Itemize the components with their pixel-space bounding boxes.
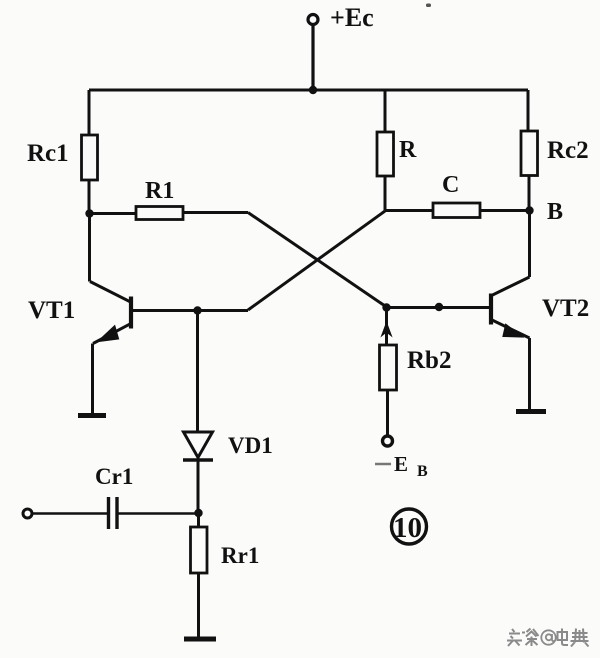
- wire: diagonal VT1 base to R bottom: [248, 211, 385, 310]
- transistor VT2: [491, 277, 530, 338]
- wire: VT2 emitter to ground: [528, 338, 531, 409]
- wire: left rail down to VT1 collector: [88, 214, 91, 282]
- label Rr1: [221, 543, 259, 568]
- label R: [399, 137, 417, 163]
- label VT1: [28, 297, 75, 324]
- svg-text:C: C: [442, 172, 459, 198]
- junction: VT1 base / VD1 branch: [193, 306, 201, 314]
- resistor Rc1: [82, 90, 98, 214]
- svg-text:Cr1: Cr1: [95, 464, 133, 489]
- transistor VT1: [90, 282, 131, 344]
- wire: VT1 base node down to VD1: [196, 311, 199, 433]
- ground (Rr1 bottom): [184, 637, 216, 642]
- terminal: trigger input: [23, 509, 32, 518]
- wire: VT1 emitter to ground: [91, 344, 94, 414]
- resistor Rc2: [521, 90, 538, 211]
- label C: [442, 172, 459, 198]
- wire: top supply rail: [89, 89, 528, 92]
- junction: trigger input node: [194, 509, 202, 517]
- wire: VT2 base wire: [388, 306, 491, 309]
- ground (VT1 emitter): [78, 413, 106, 418]
- svg-text:R: R: [399, 137, 417, 163]
- svg-text:10: 10: [393, 512, 422, 544]
- label Rc1: [27, 140, 69, 167]
- junction: Rc1 bottom node: [85, 209, 93, 217]
- node B: [525, 206, 533, 214]
- label VT2: [542, 295, 589, 322]
- power terminal +Ec: [308, 15, 318, 91]
- label Cr1: [95, 464, 133, 489]
- wire: VT1 base wire: [131, 309, 248, 312]
- junction: dot on VT2 base wire: [435, 303, 443, 311]
- svg-text:VT2: VT2: [542, 295, 589, 322]
- label B: [547, 199, 563, 225]
- capacitor Cr1: [32, 497, 198, 529]
- svg-text:Rc1: Rc1: [27, 140, 69, 167]
- svg-text:E: E: [394, 452, 408, 476]
- watermark 头条@电巢: [507, 629, 589, 647]
- capacitor C (boxed): [385, 203, 530, 218]
- resistor R: [377, 90, 394, 211]
- ground (VT2 emitter): [516, 409, 546, 414]
- speck artifact: [426, 4, 431, 8]
- svg-text:VD1: VD1: [228, 433, 273, 458]
- terminal -EB: [383, 436, 393, 446]
- label +Ec: [330, 3, 374, 32]
- svg-text:Rb2: Rb2: [407, 347, 451, 374]
- diode VD1: [183, 432, 213, 513]
- svg-text:VT1: VT1: [28, 297, 75, 324]
- svg-text:B: B: [417, 463, 428, 480]
- junction: +Ec on rail: [309, 86, 317, 94]
- junction: VT2 base / Rb2 branch: [382, 303, 390, 311]
- svg-text:B: B: [547, 199, 563, 225]
- wire: node B to VT2 collector: [528, 211, 531, 278]
- figure number 10 (circled): [392, 509, 427, 544]
- label R1: [145, 178, 174, 204]
- resistor Rb2: [380, 308, 397, 436]
- wire: diagonal R1 to VT2 base: [248, 213, 388, 309]
- label VD1: [228, 433, 273, 458]
- label Rc2: [547, 137, 589, 164]
- label -EB: [375, 452, 428, 480]
- svg-text:R1: R1: [145, 178, 174, 204]
- svg-text:Rc2: Rc2: [547, 137, 589, 164]
- resistor Rr1: [191, 513, 208, 638]
- svg-text:Rr1: Rr1: [221, 543, 259, 568]
- label Rb2: [407, 347, 451, 374]
- watermark @ glyph: [541, 630, 555, 644]
- resistor R1: [89, 207, 248, 220]
- svg-text:+Ec: +Ec: [330, 3, 374, 32]
